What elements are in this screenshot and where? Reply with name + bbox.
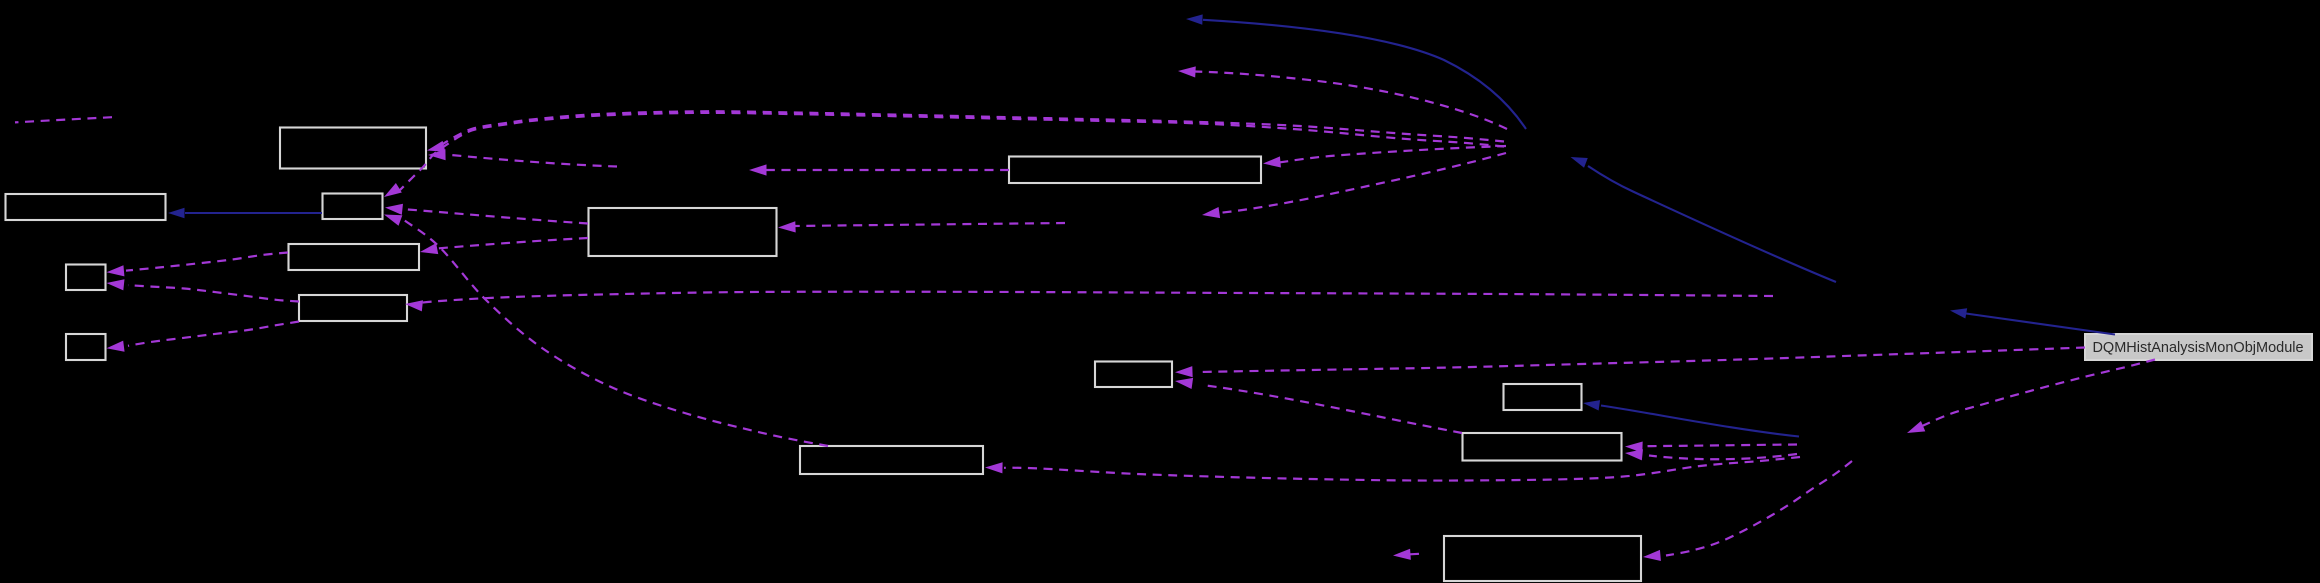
arrowhead E_B6 at B6	[404, 298, 423, 311]
edge E3 B8-to-B3	[402, 209, 588, 224]
edge E6 B4-to-B5	[126, 253, 288, 271]
node DQMHistAnalysisMonObjModule	[2085, 334, 2312, 360]
edge E_N2 hub-to-N2	[1194, 72, 1507, 130]
arrowhead E5 at B4	[419, 243, 438, 257]
arrowhead blue E_N0 at N0	[1186, 14, 1203, 25]
edge blue E_B2 B3-to-B2	[185, 212, 322, 214]
arrowhead E3 at B3	[384, 202, 403, 215]
edge E4 B13-to-B3	[404, 220, 828, 446]
edge E8 B6-to-B7	[128, 322, 299, 346]
edge E_B6 N7-to-B6	[421, 292, 1773, 303]
edge E_N5b N5-to-B8	[795, 223, 1065, 226]
edge E1 hub-to-B1	[438, 111, 1504, 147]
node B4	[289, 244, 420, 270]
arrowhead E_N9 at N9	[1393, 549, 1411, 561]
arrowhead E10 at B10	[1174, 375, 1193, 389]
edge E10 B12-to-B10	[1206, 386, 1462, 434]
arrowhead E9 at B10	[1175, 366, 1193, 378]
node B14	[1444, 536, 1641, 581]
edge blue E_N0 hub-to-N0	[1203, 20, 1526, 129]
edge E_B12b N8-to-B12	[1649, 454, 1797, 459]
node B1	[280, 128, 426, 169]
edge E15 N8-to-B13	[1004, 457, 1800, 481]
edge E_B9 hub-to-B9	[1279, 146, 1506, 163]
arrowhead blue E_B2 at B2	[168, 208, 185, 218]
arrowhead blue E12 at N7	[1949, 305, 1967, 318]
arrowhead E1 at B1	[426, 141, 446, 156]
arrowhead E13 at N8	[1905, 421, 1925, 438]
edge Ea hub-to-B3	[400, 113, 1504, 190]
arrowhead E6 at B5	[106, 265, 124, 278]
arrowhead E_N2 at N2	[1178, 65, 1196, 77]
node B9	[1009, 157, 1261, 184]
edge E_N9 B14-to-N9	[1407, 553, 1419, 556]
arrowhead E7 at B5	[106, 277, 125, 290]
node B2	[6, 194, 166, 220]
arrowhead blue E_N1 at N1	[1569, 152, 1588, 168]
edge E14 N8-to-B14	[1666, 461, 1852, 556]
arrowhead E_B9 at B9	[1263, 156, 1281, 169]
arrowhead E_N5b at B8	[778, 221, 796, 233]
edge E5 B8-to-B4	[437, 238, 588, 249]
arrowhead E_N3b at N3	[749, 164, 767, 175]
edge E_B12a N8-to-B12	[1642, 445, 1797, 447]
node B3	[323, 194, 383, 220]
edge E_N3b B9-to-N3	[766, 169, 1009, 171]
node B7	[66, 334, 106, 360]
edge blue E11 N8-to-B11	[1601, 406, 1799, 437]
edge E13 B15-to-N8	[1921, 360, 2155, 427]
node B13	[800, 446, 983, 474]
arrowhead E2 at B1	[428, 149, 446, 161]
edge E_N5 hub-to-N5	[1219, 153, 1506, 213]
node B8	[589, 208, 777, 256]
node B10	[1095, 362, 1172, 388]
arrowhead E_B12a at B12	[1625, 441, 1643, 453]
edge blue E12 B15-to-N7	[1966, 314, 2115, 335]
arrowhead E15 at B13	[985, 462, 1003, 474]
edge E9 B15-to-B10	[1199, 348, 2085, 373]
node B12	[1463, 433, 1622, 461]
arrowhead E14 at B14	[1643, 550, 1661, 563]
node B6	[299, 295, 407, 321]
edge exit-left	[15, 117, 112, 122]
node B5	[66, 265, 106, 291]
svg-text:DQMHistAnalysisMonObjModule: DQMHistAnalysisMonObjModule	[2092, 340, 2303, 356]
edge E2 N3-to-B1	[446, 155, 617, 167]
edge blue E_N1 N7-to-N1	[1588, 166, 1836, 282]
arrowhead E8 at B7	[106, 341, 125, 354]
arrowhead E_B12b at B12	[1624, 447, 1643, 460]
arrowhead Ea at B3	[381, 183, 402, 202]
arrowhead blue E11 at B11	[1582, 398, 1600, 411]
arrowhead E_N5 at N5	[1201, 207, 1220, 221]
node B11	[1504, 384, 1582, 410]
edge E7 B6-to-B5	[128, 285, 299, 301]
arrowhead E4 at B3	[382, 209, 402, 226]
